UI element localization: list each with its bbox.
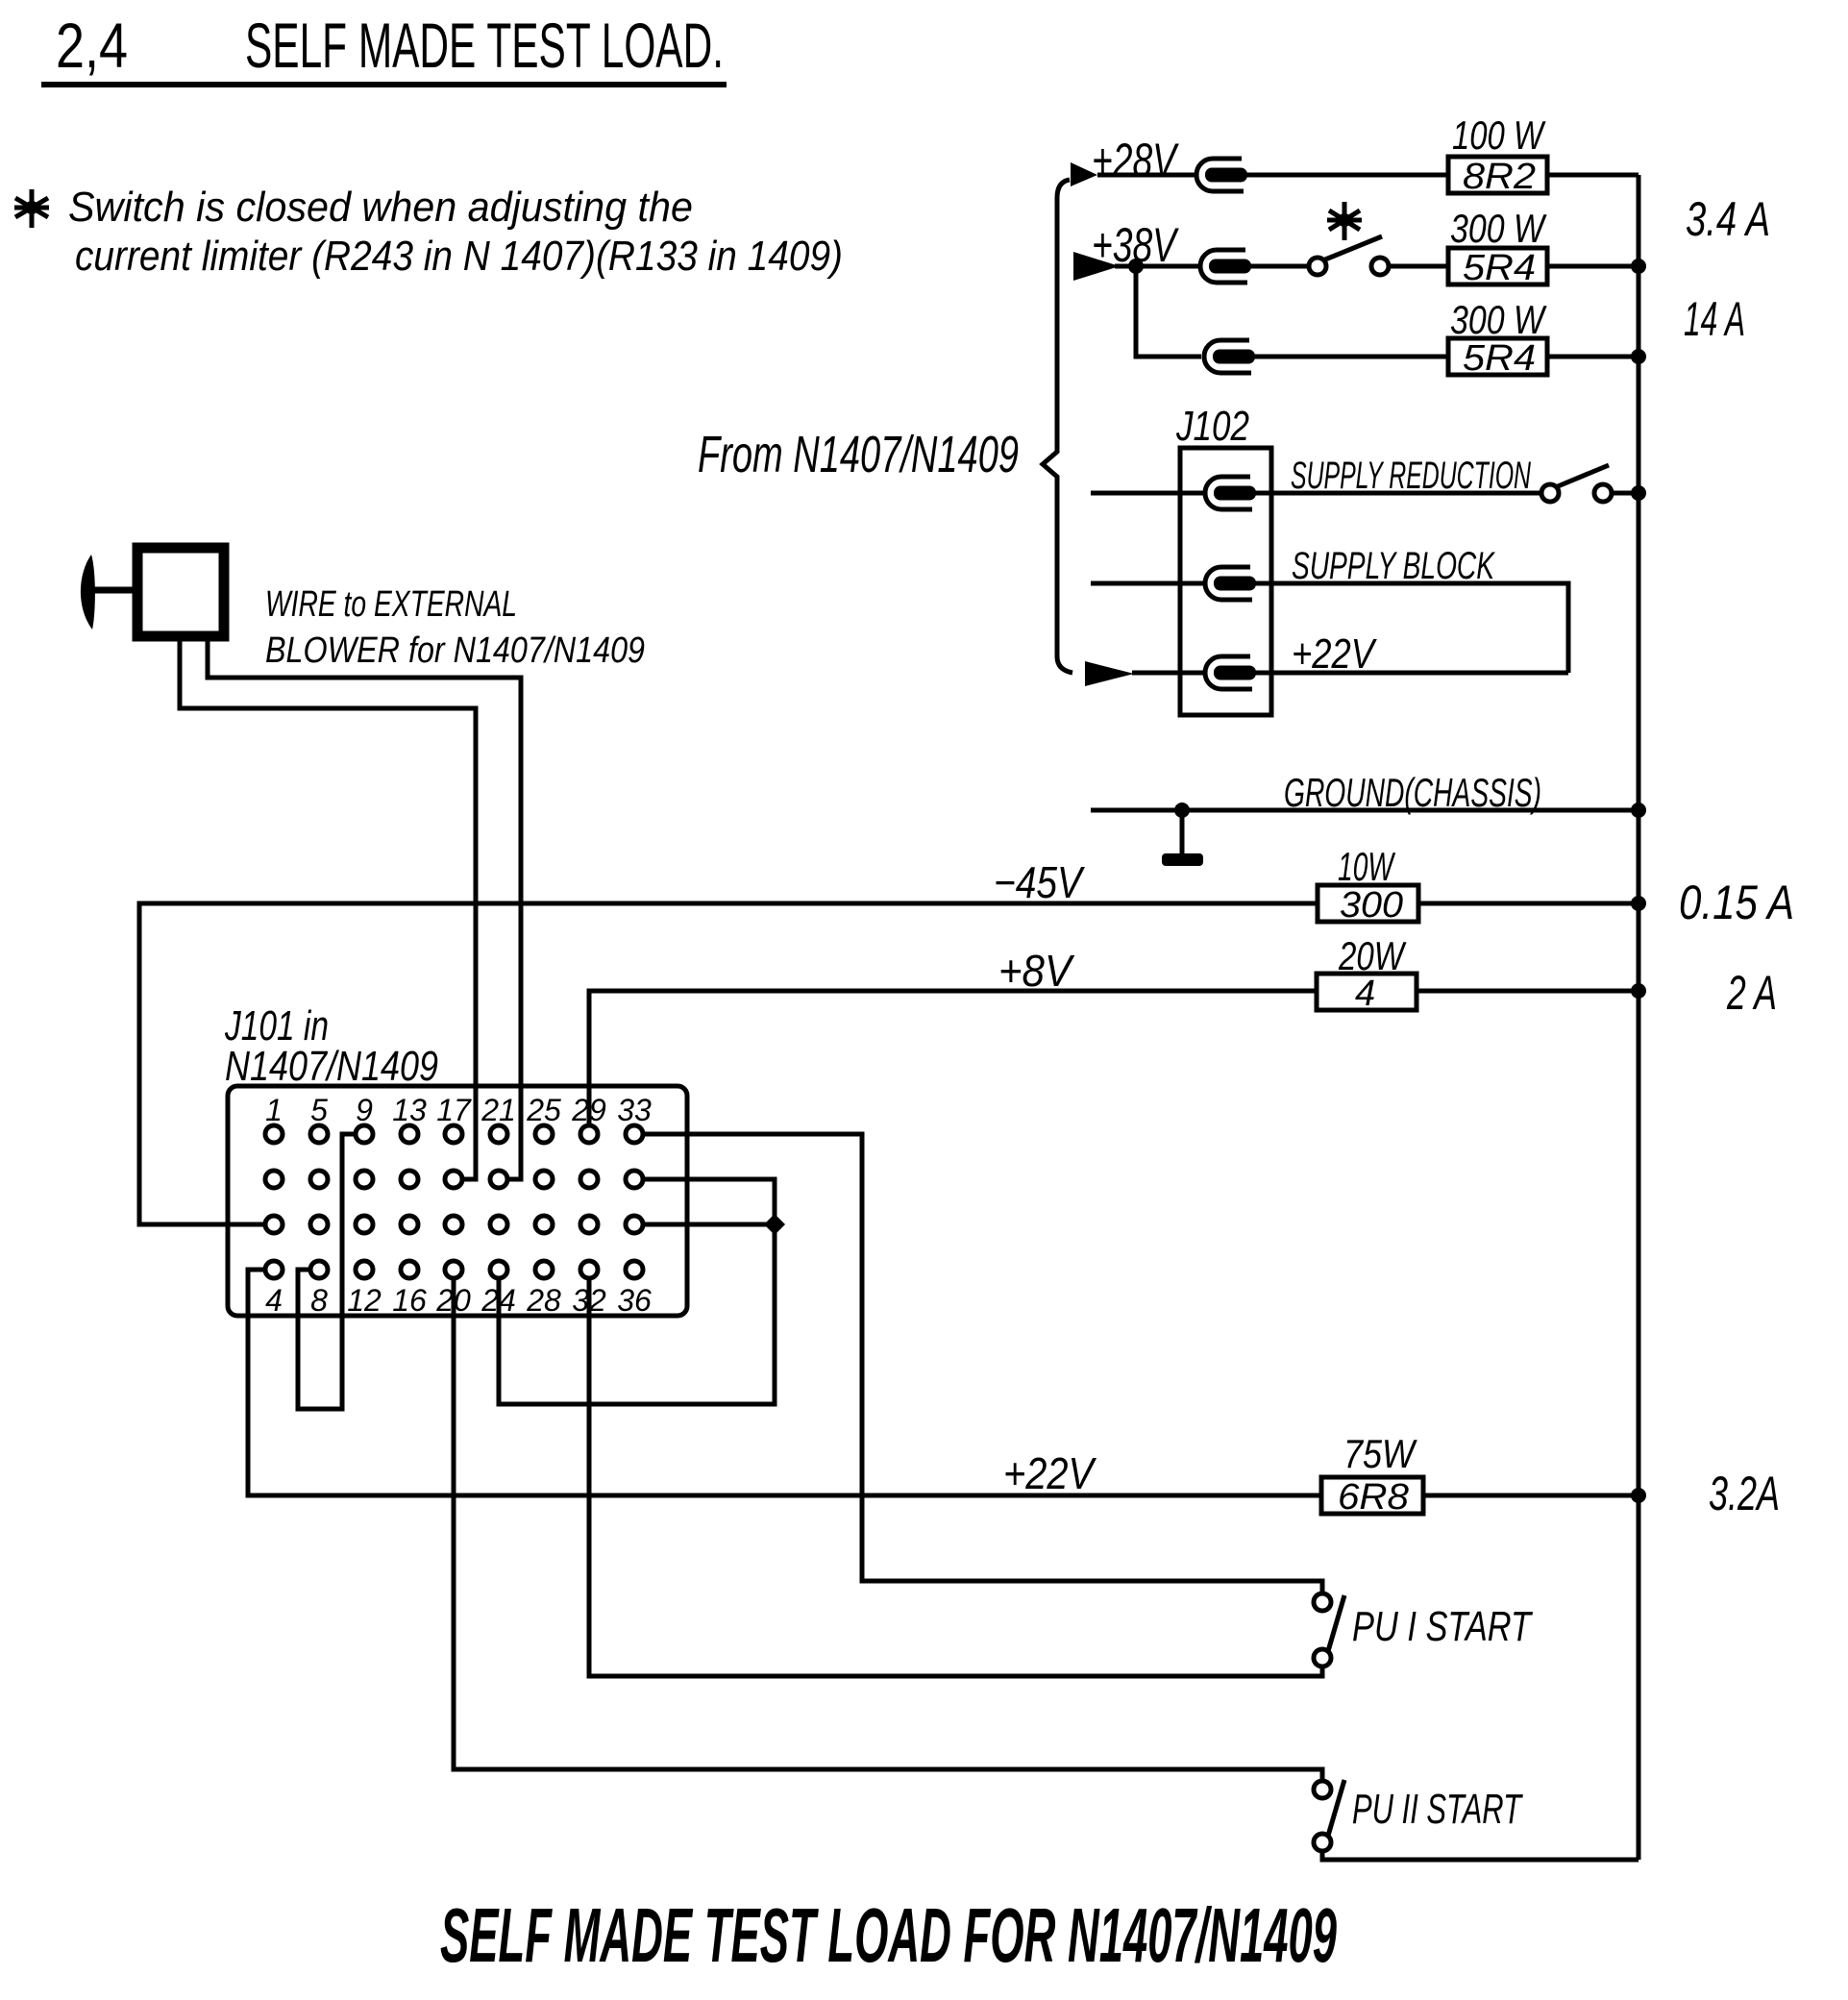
- resistor 5R4 first: [1448, 248, 1547, 284]
- wire blower left to pin18: [180, 641, 476, 1179]
- svg-text:From N1407/N1409: From N1407/N1409: [698, 426, 1019, 483]
- svg-text:5: 5: [310, 1093, 328, 1127]
- socket +28V: [1196, 159, 1247, 191]
- svg-text:36: 36: [617, 1283, 652, 1318]
- wire pin33 to PUI top: [645, 1134, 1322, 1593]
- wire pin8 pin9 loop: [298, 1134, 354, 1409]
- wire +38V down to third row: [1136, 266, 1201, 357]
- svg-text:300 W: 300 W: [1450, 206, 1547, 251]
- switch S1 lever: [1325, 236, 1382, 259]
- ground chassis symbol: [1180, 810, 1185, 855]
- switch S2 lever: [1558, 465, 1609, 486]
- wire switch S2 to bus: [1612, 491, 1639, 496]
- svg-text:16: 16: [392, 1283, 427, 1318]
- svg-text:J102: J102: [1175, 403, 1249, 450]
- svg-text:8R2: 8R2: [1463, 157, 1536, 197]
- svg-text:5R4: 5R4: [1463, 248, 1536, 288]
- wire 300 to bus: [1418, 901, 1639, 906]
- svg-text:4: 4: [1355, 974, 1375, 1014]
- wire blower right to pin22: [208, 641, 521, 1179]
- svg-text:5R4: 5R4: [1463, 338, 1536, 379]
- svg-text:SUPPLY REDUCTION: SUPPLY REDUCTION: [1291, 455, 1531, 497]
- svg-text:3.4 A: 3.4 A: [1686, 192, 1770, 246]
- wire pin20 to PUII: [454, 1280, 1322, 1781]
- arrow +28V: [1071, 162, 1097, 186]
- switch PUI contact top: [1314, 1593, 1331, 1611]
- svg-text:13: 13: [392, 1093, 427, 1127]
- switch PUII contact bottom: [1314, 1834, 1331, 1851]
- wire +22V J102 right: [1254, 671, 1568, 676]
- wire +38V to socket: [1115, 264, 1198, 269]
- junction bus 1556: [1631, 1488, 1646, 1503]
- junction bus 513: [1631, 485, 1646, 501]
- socket supply block: [1205, 567, 1256, 600]
- wire +28V to resistor: [1244, 173, 1448, 178]
- fan shaft: [92, 587, 135, 594]
- asterisk mark: [1327, 202, 1362, 240]
- svg-text:12: 12: [347, 1283, 382, 1318]
- resistor 300: [1318, 885, 1418, 922]
- wire 8R2 to bus: [1547, 173, 1639, 178]
- svg-text:100 W: 100 W: [1452, 112, 1546, 158]
- svg-text:14 A: 14 A: [1684, 292, 1745, 346]
- connector J101 box: [228, 1086, 687, 1316]
- svg-text:21: 21: [480, 1093, 516, 1127]
- wire socket to 5R4 second: [1252, 355, 1448, 359]
- wire supply reduction left stub: [1091, 491, 1203, 496]
- switch S1 contact right: [1371, 258, 1389, 275]
- switch S2 contact right: [1594, 484, 1612, 502]
- switch PUI contact bottom: [1314, 1649, 1331, 1667]
- svg-text:PU II START: PU II START: [1352, 1786, 1523, 1833]
- wire +28V left: [1097, 173, 1195, 178]
- svg-text:2,4: 2,4: [56, 10, 128, 81]
- svg-text:9: 9: [356, 1093, 373, 1127]
- resistor 5R4 second: [1448, 338, 1547, 375]
- svg-text:6R8: 6R8: [1338, 1477, 1409, 1518]
- svg-text:1: 1: [265, 1093, 283, 1127]
- wire 4 to bus: [1417, 989, 1639, 994]
- brace: [1043, 180, 1072, 673]
- wire 6R8 to bus: [1423, 1494, 1639, 1498]
- svg-text:300 W: 300 W: [1450, 297, 1547, 342]
- junction bus 277: [1631, 259, 1646, 274]
- svg-text:17: 17: [436, 1093, 472, 1127]
- wire 5R4 to bus: [1547, 264, 1639, 269]
- switch PUII contact top: [1314, 1781, 1331, 1798]
- svg-text:−45V: −45V: [994, 857, 1086, 907]
- switch PUII lever: [1328, 1780, 1344, 1836]
- svg-text:2 A: 2 A: [1726, 966, 1777, 1020]
- svg-text:PU I START: PU I START: [1352, 1603, 1533, 1650]
- wire PUII bottom to bus: [1322, 1851, 1639, 1860]
- svg-text:BLOWER for N1407/N1409: BLOWER for N1407/N1409: [265, 630, 645, 671]
- socket +38V: [1200, 250, 1251, 283]
- svg-text:25: 25: [526, 1093, 561, 1127]
- svg-text:28: 28: [526, 1283, 561, 1318]
- wire pin4 to +22V: [248, 1270, 1321, 1495]
- svg-text:8: 8: [310, 1283, 328, 1318]
- svg-text:75W: 75W: [1343, 1431, 1417, 1476]
- resistor 8R2: [1448, 157, 1547, 193]
- switch PUI lever: [1328, 1595, 1344, 1651]
- arrow +38V: [1073, 252, 1120, 281]
- junction node +38V: [1128, 259, 1144, 274]
- svg-text:+28V: +28V: [1092, 134, 1179, 187]
- bus right vertical: [1637, 175, 1641, 1860]
- socket supply reduction: [1205, 477, 1256, 509]
- wire socket to switch: [1248, 264, 1309, 269]
- svg-text:10W: 10W: [1338, 844, 1395, 889]
- fan blade: [81, 555, 95, 630]
- wire switch to 5R4: [1389, 264, 1448, 269]
- svg-text:300: 300: [1340, 885, 1403, 926]
- J101 pin circles: [265, 1125, 643, 1278]
- wire ground: [1091, 808, 1639, 813]
- junction bus 940: [1631, 896, 1646, 911]
- arrow +22V J102: [1085, 661, 1134, 686]
- resistor 6R8: [1321, 1477, 1423, 1514]
- svg-text:WIRE to EXTERNAL: WIRE to EXTERNAL: [265, 584, 517, 625]
- wire +8V from J101 pin29: [589, 991, 1317, 1123]
- wire -45V from J101 pin3: [139, 903, 1318, 1224]
- wire supply block left stub: [1091, 581, 1203, 586]
- junction bus 1031: [1631, 983, 1646, 999]
- svg-text:29: 29: [571, 1093, 606, 1127]
- wire pin35 to junction: [645, 1222, 775, 1227]
- svg-text:0.15 A: 0.15 A: [1679, 876, 1794, 929]
- wire supply block loop: [1254, 583, 1568, 673]
- svg-text:SUPPLY BLOCK: SUPPLY BLOCK: [1292, 545, 1496, 587]
- junction pin34 pin35: [764, 1214, 785, 1235]
- socket third row: [1204, 340, 1255, 373]
- switch S2 contact left: [1541, 484, 1559, 502]
- wire supply reduction to switch: [1254, 491, 1541, 496]
- wire pin24 pin34 loop: [499, 1179, 775, 1404]
- blower box: [137, 548, 224, 636]
- svg-text:Switch is closed when adjustin: Switch is closed when adjusting the: [68, 184, 693, 231]
- note asterisk: [14, 189, 49, 228]
- svg-text:current limiter (R243 in N 140: current limiter (R243 in N 1407)(R133 in…: [75, 233, 843, 280]
- svg-text:+8V: +8V: [998, 946, 1075, 996]
- J101 pin labels bottom: [265, 1283, 652, 1318]
- wire +22V J102 left: [1132, 671, 1203, 676]
- connector J102 box: [1180, 448, 1271, 715]
- wire 5R4 second to bus: [1547, 355, 1639, 359]
- J101 pin labels top: [265, 1093, 652, 1127]
- svg-text:4: 4: [265, 1283, 283, 1318]
- junction ground left: [1174, 802, 1190, 818]
- svg-text:33: 33: [617, 1093, 652, 1127]
- title underline: [41, 82, 727, 87]
- resistor 4: [1317, 974, 1417, 1010]
- svg-text:N1407/N1409: N1407/N1409: [225, 1043, 438, 1090]
- junction bus 371: [1631, 349, 1646, 364]
- junction bus 843: [1631, 802, 1646, 818]
- wire pin32 to PUI bottom: [589, 1280, 1322, 1676]
- svg-text:+22V: +22V: [1003, 1448, 1097, 1498]
- socket +22V J102: [1205, 656, 1256, 689]
- switch S1 contact left: [1309, 258, 1326, 275]
- svg-text:3.2A: 3.2A: [1709, 1467, 1780, 1520]
- svg-text:SELF MADE TEST LOAD.: SELF MADE TEST LOAD.: [245, 10, 724, 81]
- svg-text:SELF MADE TEST LOAD FOR N1407/: SELF MADE TEST LOAD FOR N1407/N1409: [440, 1892, 1337, 1978]
